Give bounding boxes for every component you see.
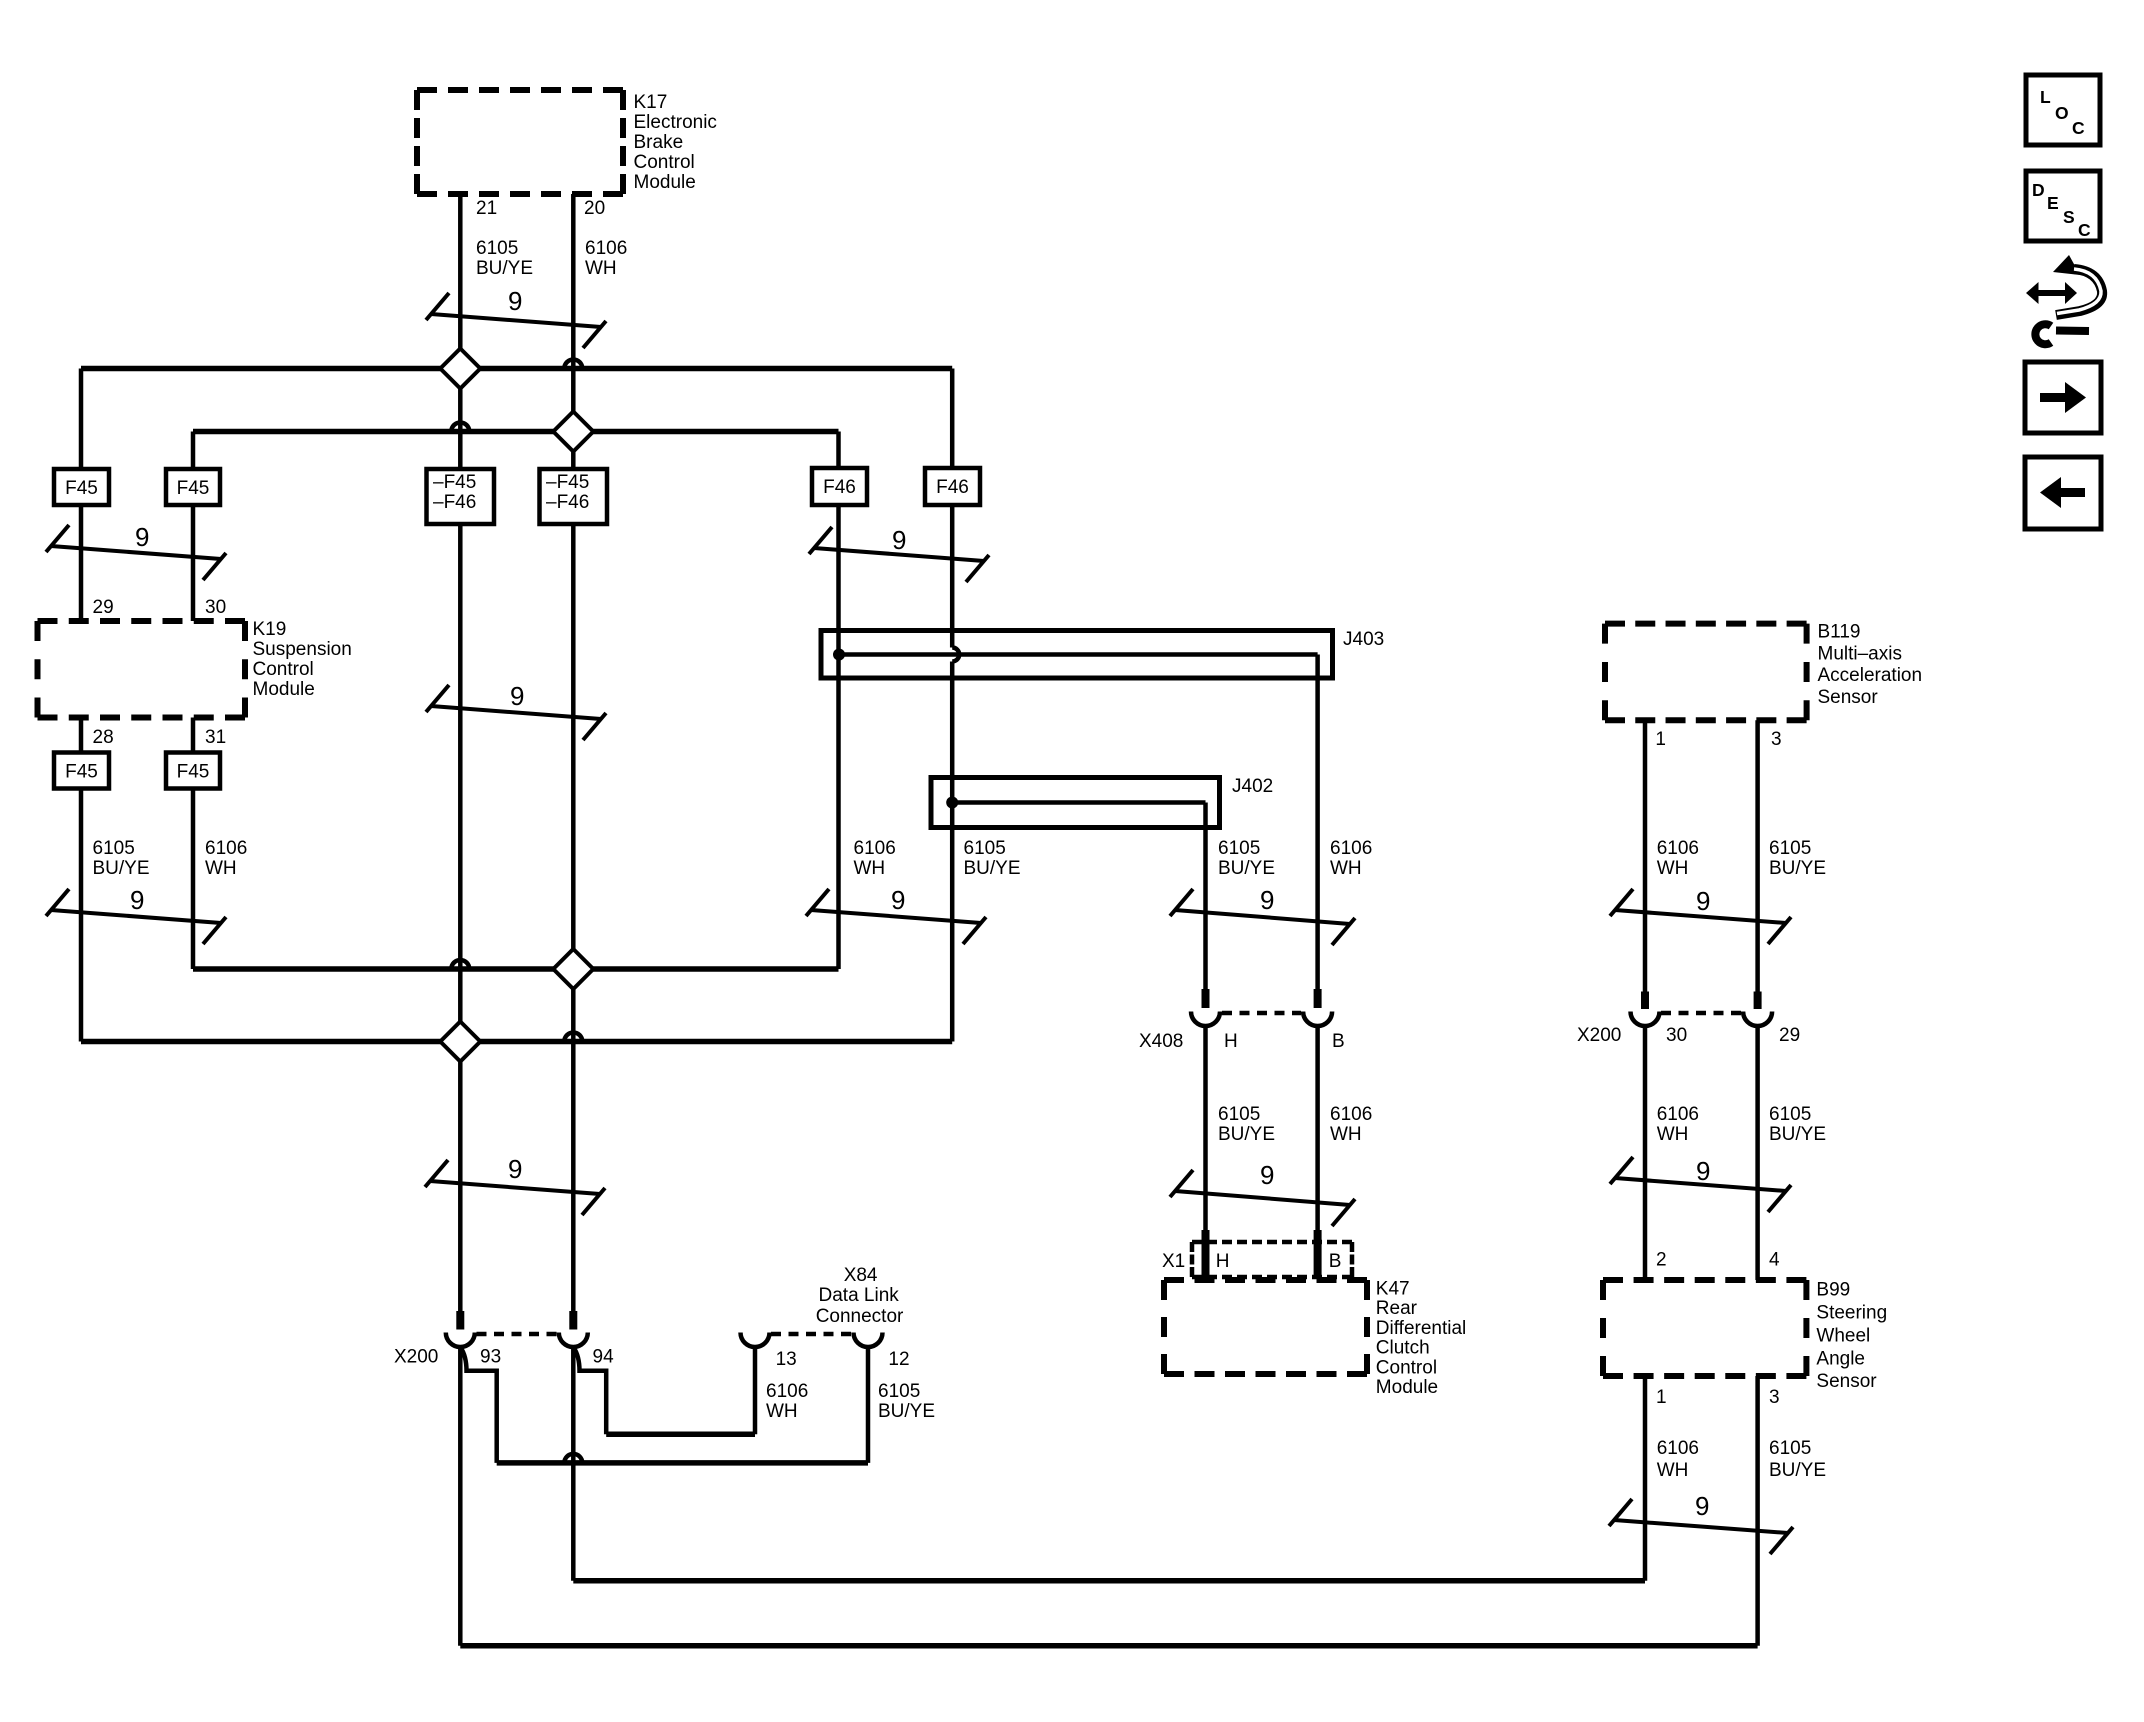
svg-text:93: 93 [480, 1347, 501, 1368]
connector X200 right pin 30 stub [1641, 992, 1649, 1010]
svg-text:31: 31 [205, 727, 226, 748]
wire X84 pin 12 riser [866, 1347, 871, 1463]
svg-text:Module: Module [634, 172, 696, 193]
svg-text:J403: J403 [1343, 629, 1384, 650]
svg-text:B: B [1329, 1251, 1342, 1272]
icon DESC box [2026, 171, 2100, 241]
svg-text:D: D [2032, 180, 2045, 200]
wire hop of line 3 over 6105 wire [451, 960, 469, 969]
wire hop of 6105 wire over J403 internal bus [952, 648, 959, 662]
svg-text:9: 9 [1260, 1160, 1274, 1190]
connector X408 dashed mating line [1222, 1011, 1301, 1016]
svg-text:BU/YE: BU/YE [1218, 858, 1275, 879]
fuse tag F45 (lower left 1) [54, 753, 109, 789]
svg-text:6106: 6106 [205, 838, 247, 859]
wire hop of line 2 over 6105 wire [451, 423, 469, 432]
module K17 Electronic Brake Control Module (dashed box) [417, 90, 623, 194]
wire 6105 BU/YE B119 pin 3 to X200 pin 29 and B99 pin 4 [1755, 720, 1760, 1646]
svg-text:6106: 6106 [766, 1381, 808, 1402]
icon LOC box [2026, 75, 2100, 145]
fuse tag F46 (left) [812, 468, 867, 505]
wire 6106 WH below X200 pin 94 to bottom corner [571, 1347, 576, 1581]
icon left-arrow box [2025, 457, 2101, 529]
svg-text:Suspension: Suspension [253, 639, 352, 660]
label wire 6106 WH at X84 pin13 [766, 1381, 808, 1422]
label wire 6106 WH below X408 B [1330, 1104, 1372, 1145]
svg-text:6105: 6105 [476, 238, 518, 259]
svg-text:6105: 6105 [93, 838, 135, 859]
svg-text:–F46: –F46 [433, 492, 476, 513]
junction diamond on line 1 at 6105 wire [440, 349, 480, 389]
svg-text:BU/YE: BU/YE [1769, 1124, 1826, 1145]
svg-text:F45: F45 [65, 762, 98, 783]
label X84 Data Link Connector [816, 1265, 904, 1327]
svg-text:6105: 6105 [1769, 838, 1811, 859]
connector X200 left pin 94 cup [559, 1333, 588, 1348]
svg-text:3: 3 [1769, 1387, 1780, 1408]
svg-text:29: 29 [93, 597, 114, 618]
label wire 6106 WH below K17 [585, 238, 627, 279]
svg-text:9: 9 [510, 681, 524, 711]
svg-text:12: 12 [888, 1349, 909, 1370]
svg-text:30: 30 [205, 597, 226, 618]
svg-text:B119: B119 [1818, 622, 1861, 643]
wire 6105 BU/YE from J402 bus down to X408 pin H [1203, 803, 1208, 1231]
splice pack J403 outer box [821, 631, 1333, 679]
wire 6105 BU/YE from K17 pin 21 (upper segment) [458, 194, 463, 1311]
label wire 6105 BU/YE below B99 pin3 [1769, 1438, 1826, 1481]
svg-text:Steering: Steering [1816, 1302, 1887, 1323]
twisted pair symbol above K19 (F45 pair) [46, 525, 226, 580]
svg-text:Differential: Differential [1376, 1318, 1466, 1339]
svg-text:WH: WH [585, 258, 617, 279]
svg-text:BU/YE: BU/YE [878, 1401, 935, 1422]
svg-text:BU/YE: BU/YE [964, 858, 1021, 879]
svg-text:–F45: –F45 [433, 472, 476, 493]
svg-text:Angle: Angle [1816, 1348, 1865, 1369]
wire 6105 BU/YE below X200 pin 93 to bottom corner [458, 1347, 463, 1646]
svg-text:WH: WH [1657, 858, 1689, 879]
svg-text:94: 94 [593, 1347, 615, 1368]
icon right-arrow box [2025, 362, 2101, 433]
svg-text:Brake: Brake [634, 132, 684, 153]
svg-text:6106: 6106 [585, 238, 627, 259]
svg-text:H: H [1224, 1031, 1238, 1052]
twisted pair symbol above B99 [1610, 1157, 1791, 1212]
label wire 6105 BU/YE below X200-29 [1769, 1104, 1826, 1145]
svg-text:Sensor: Sensor [1818, 687, 1879, 708]
wire bus line 2 (y=431.5) K17-20 pair [193, 429, 839, 435]
svg-text:B99: B99 [1816, 1280, 1850, 1301]
twisted pair symbol above X200 right [1610, 889, 1791, 944]
svg-text:F46: F46 [823, 477, 856, 498]
splice pack J403 internal bus with corner down [839, 652, 1318, 657]
svg-text:9: 9 [892, 525, 906, 555]
label K17 module name [634, 92, 717, 193]
svg-text:29: 29 [1779, 1025, 1800, 1046]
wire X84 pin13 link line (y=1434.3) [606, 1432, 755, 1438]
svg-text:6106: 6106 [1330, 1104, 1372, 1125]
svg-text:WH: WH [205, 858, 237, 879]
splice pack J403 bus dot [833, 649, 845, 661]
svg-text:Data Link: Data Link [819, 1285, 900, 1306]
wire 6106 WH from J403 bus down to X408 pin B [1315, 655, 1320, 1231]
svg-text:9: 9 [130, 885, 144, 915]
twisted pair symbol below X408 [1170, 1170, 1355, 1226]
svg-text:X1: X1 [1162, 1251, 1185, 1272]
wire 6105 BU/YE through F46, J403 hop, J402 (x=952.2) [950, 369, 955, 1042]
wire bus line 3 (y=969) [193, 966, 839, 972]
connector X200 left dashed mating line [477, 1332, 558, 1337]
wire bottom line to B99 pin 1 (y=1580.8) [573, 1578, 1645, 1584]
svg-text:13: 13 [776, 1349, 797, 1370]
label K47 module name [1376, 1278, 1466, 1398]
svg-text:9: 9 [1695, 1491, 1709, 1521]
svg-text:BU/YE: BU/YE [93, 858, 150, 879]
wire hop of line 1 over 6106 wire [564, 360, 582, 369]
svg-text:C: C [2072, 118, 2085, 138]
svg-text:F45: F45 [177, 762, 210, 783]
svg-text:WH: WH [1657, 1460, 1689, 1481]
svg-text:S: S [2063, 207, 2075, 227]
wire X200 pin 93 jog to X84 pin 12 run [460, 1347, 496, 1463]
svg-text:O: O [2055, 103, 2069, 123]
svg-text:21: 21 [476, 198, 497, 219]
svg-text:2: 2 [1656, 1250, 1667, 1271]
connector X200 right pin 29 stub [1754, 992, 1762, 1010]
connector X408 pin H stub [1202, 989, 1210, 1008]
wire X200 pin 94 jog to X84 pin 13 run [573, 1347, 606, 1434]
label wire 6105 BU/YE at X84 pin12 [878, 1381, 935, 1422]
svg-text:6105: 6105 [878, 1381, 920, 1402]
connector X1 on K47 (dashed box) [1192, 1242, 1352, 1277]
junction diamond on line 4 at 6105 wire [440, 1022, 480, 1062]
twisted pair symbol below B99 [1609, 1499, 1793, 1554]
label wire 6106 WH below X200-30 [1657, 1104, 1699, 1145]
connector X84 dashed mating line [771, 1332, 852, 1337]
sensor B99 Steering Wheel Angle Sensor (dashed box) [1603, 1280, 1806, 1376]
svg-text:9: 9 [1696, 886, 1710, 916]
fuse tag F45 (upper left 2) [166, 469, 220, 505]
svg-text:BU/YE: BU/YE [476, 258, 533, 279]
svg-text:E: E [2047, 193, 2059, 213]
svg-text:K17: K17 [634, 92, 668, 113]
junction diamond on line 2 at 6106 wire [553, 412, 593, 452]
connector X200 left pin 93 stub [456, 1311, 464, 1330]
svg-text:9: 9 [135, 522, 149, 552]
svg-text:WH: WH [1330, 1124, 1362, 1145]
connector X200 left pin 93 cup [446, 1333, 475, 1348]
svg-text:H: H [1216, 1251, 1230, 1272]
wire K19 pin 29 branch (x=81) [79, 369, 84, 1042]
svg-text:Module: Module [1376, 1377, 1438, 1398]
icon two-way arrow with pointer and wrench [2026, 255, 2102, 344]
splice pack J402 outer box [931, 778, 1220, 828]
svg-text:Electronic: Electronic [634, 112, 717, 133]
svg-text:X84: X84 [844, 1265, 878, 1286]
svg-text:28: 28 [93, 727, 114, 748]
label wire 6105 BU/YE above X408 H [1218, 838, 1275, 879]
svg-text:6106: 6106 [1330, 838, 1372, 859]
fuse tag F46 (right) [925, 468, 980, 505]
svg-text:C: C [2078, 220, 2091, 240]
label wire 6105 BU/YE below K17 [476, 238, 533, 279]
wire bus line 4 (y=1041.5) [81, 1039, 952, 1045]
svg-text:9: 9 [508, 1154, 522, 1184]
svg-text:Multi–axis: Multi–axis [1818, 643, 1902, 664]
label wire 6106 WH below B99 pin1 [1657, 1438, 1699, 1481]
connector X1 pin H stub [1202, 1230, 1210, 1278]
label wire 6105 BU/YE below K19 F45 [93, 838, 150, 879]
svg-text:F46: F46 [936, 477, 969, 498]
svg-text:Control: Control [1376, 1357, 1437, 1378]
connector X408 pin B stub [1314, 989, 1322, 1008]
svg-text:X200: X200 [394, 1347, 438, 1368]
wire bottom line to B99 pin 3 (y=1645.8) [460, 1643, 1757, 1649]
svg-text:6106: 6106 [1657, 1104, 1699, 1125]
label K19 module name [253, 619, 352, 700]
connector X200 right pin 30 cup [1631, 1012, 1660, 1027]
svg-text:9: 9 [508, 286, 522, 316]
fuse tag F45 (lower left 2) [166, 753, 220, 789]
wire hop of line 4 over 6106 wire [564, 1033, 582, 1042]
module K47 Rear Differential Clutch Control Module (dashed box) [1164, 1280, 1367, 1374]
svg-text:BU/YE: BU/YE [1769, 1460, 1826, 1481]
wire X84 pin 13 riser [753, 1347, 758, 1434]
label B119 sensor name [1818, 622, 1923, 708]
twisted pair symbol mid left pair (y~712) [426, 685, 606, 740]
svg-text:WH: WH [1657, 1124, 1689, 1145]
svg-text:J402: J402 [1232, 776, 1273, 797]
svg-text:Rear: Rear [1376, 1298, 1418, 1319]
svg-text:6105: 6105 [964, 838, 1006, 859]
fuse tag -F45/-F46 (right) [540, 469, 608, 524]
wire 6106 WH from K17 pin 20 (upper segment) [571, 194, 576, 1311]
connector X200 right dashed mating line [1661, 1011, 1741, 1016]
svg-text:Acceleration: Acceleration [1818, 665, 1923, 686]
label wire 6105 BU/YE above line4 corner [964, 838, 1021, 879]
svg-text:4: 4 [1769, 1250, 1780, 1271]
svg-text:Sensor: Sensor [1816, 1371, 1877, 1392]
wire 6106 WH through F46 and J403 (x=838.5) [836, 432, 841, 970]
connector X1 pin B stub [1314, 1230, 1322, 1278]
wire X84 pin12 link line (y=1462.9) [497, 1460, 868, 1466]
svg-text:L: L [2040, 87, 2051, 107]
twisted pair symbol above line3 corner (y~916, F46 pair) [806, 889, 986, 944]
connector X408 pin H cup [1191, 1012, 1220, 1027]
connector X84 pin 12 cup [854, 1333, 883, 1348]
twisted pair symbol below K19 (y~916) [46, 889, 226, 944]
svg-text:6106: 6106 [1657, 838, 1699, 859]
sensor B119 Multi-axis Acceleration Sensor (dashed box) [1605, 624, 1807, 721]
wire K19 pin 30/31 branch (x=193) [191, 432, 196, 970]
svg-text:B: B [1332, 1031, 1345, 1052]
svg-text:9: 9 [1696, 1156, 1710, 1186]
fuse tag F45 (upper left 1) [54, 469, 109, 505]
connector X200 right pin 29 cup [1743, 1012, 1772, 1027]
label wire 6106 WH below K19 F45 [205, 838, 247, 879]
svg-text:–F45: –F45 [546, 472, 589, 493]
label wire 6106 WH below B119 pin1 [1657, 838, 1699, 879]
svg-text:6106: 6106 [1657, 1438, 1699, 1459]
svg-text:F45: F45 [177, 478, 210, 499]
svg-text:Connector: Connector [816, 1306, 904, 1327]
svg-text:20: 20 [584, 198, 605, 219]
svg-text:WH: WH [766, 1401, 798, 1422]
svg-text:WH: WH [1330, 858, 1362, 879]
svg-text:K19: K19 [253, 619, 287, 640]
connector X84 pin 13 cup [741, 1333, 770, 1348]
label wire 6105 BU/YE below X408 H [1218, 1104, 1275, 1145]
wire bus line 1 (y=368.5) K17-21 pair [81, 366, 952, 372]
twisted pair symbol below F46 boxes [809, 527, 989, 582]
svg-text:WH: WH [854, 858, 886, 879]
svg-text:9: 9 [1260, 885, 1274, 915]
wire 6106 WH B119 pin 1 to X200 pin 30 and B99 pin 2 [1643, 720, 1648, 1581]
svg-text:6105: 6105 [1218, 838, 1260, 859]
svg-text:F45: F45 [65, 478, 98, 499]
svg-text:6106: 6106 [854, 838, 896, 859]
svg-text:BU/YE: BU/YE [1218, 1124, 1275, 1145]
svg-text:Clutch: Clutch [1376, 1338, 1430, 1359]
svg-text:6105: 6105 [1769, 1104, 1811, 1125]
svg-text:X200: X200 [1577, 1025, 1621, 1046]
splice pack J402 bus dot [946, 797, 958, 809]
svg-text:Module: Module [253, 679, 315, 700]
svg-text:Control: Control [634, 152, 695, 173]
connector X408 pin B cup [1303, 1012, 1332, 1027]
svg-text:K47: K47 [1376, 1278, 1410, 1299]
twisted pair symbol above X200 left [425, 1160, 605, 1215]
twisted pair symbol below K17 [426, 293, 606, 348]
svg-text:Wheel: Wheel [1816, 1325, 1870, 1346]
svg-text:1: 1 [1655, 729, 1666, 750]
twisted pair symbol above X408 [1170, 889, 1355, 945]
connector X200 left pin 94 stub [569, 1311, 577, 1330]
svg-text:9: 9 [891, 885, 905, 915]
svg-text:6105: 6105 [1769, 1438, 1811, 1459]
svg-text:X408: X408 [1139, 1031, 1183, 1052]
svg-text:Control: Control [253, 659, 314, 680]
junction diamond on line 3 at 6106 wire [553, 949, 593, 989]
svg-text:3: 3 [1771, 729, 1782, 750]
svg-text:–F46: –F46 [546, 492, 589, 513]
label wire 6106 WH above line3 corner [854, 838, 896, 879]
label B99 sensor name [1816, 1280, 1887, 1393]
label wire 6105 BU/YE below B119 pin3 [1769, 838, 1826, 879]
svg-text:BU/YE: BU/YE [1769, 858, 1826, 879]
svg-text:6105: 6105 [1218, 1104, 1260, 1125]
wire hop of X84 pin12 link over 6106 wire [564, 1454, 582, 1463]
svg-text:1: 1 [1656, 1387, 1667, 1408]
svg-text:30: 30 [1666, 1025, 1687, 1046]
fuse tag -F45/-F46 (left) [427, 469, 495, 524]
splice pack J402 internal bus [952, 800, 1205, 805]
module K19 Suspension Control Module (dashed box) [38, 621, 246, 718]
label wire 6106 WH above X408 B [1330, 838, 1372, 879]
